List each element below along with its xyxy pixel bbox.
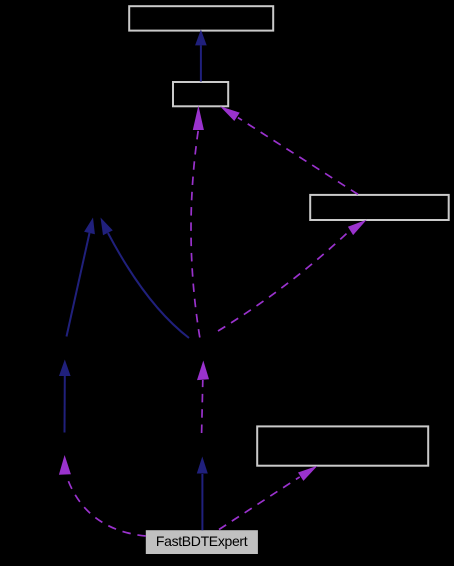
usage edge P1: middle invisible node up to second box (dashed purple)	[191, 106, 204, 338]
node: right-side class box	[310, 195, 449, 220]
usage edge P4: lower-middle invisible node up to middle invisible node (dashed purple)	[197, 361, 209, 434]
node: second-level class box	[173, 82, 228, 106]
usage edge Pcurve: FastBDTExpert left, curved, up to lower-left invisible node (dashed purple)	[59, 455, 146, 536]
node: top base-class box	[129, 6, 273, 30]
inheritance edge B3: lower-left invisible node up to left invisible node	[59, 360, 71, 433]
usage edge P3: FastBDTExpert up-right to lower-right box (dashed purple)	[219, 466, 318, 530]
inheritance edge B6: left invisible node to upper invisible node	[67, 218, 95, 337]
usage edge Pdiag: middle invisible node up-right to right box (dashed purple)	[218, 220, 367, 331]
inheritance edge B1: second box to top box (solid navy)	[195, 30, 207, 82]
usage edge P2: right box up-left to second box (dashed purple)	[220, 106, 358, 194]
svg-text:FastBDTExpert: FastBDTExpert	[156, 533, 248, 549]
inheritance edge B4: middle invisible node, curved, to upper invisible node	[101, 218, 190, 339]
node: lower-right class box (two-line)	[257, 426, 428, 465]
inheritance edge B5: FastBDTExpert up to lower-middle invisible node	[197, 457, 208, 531]
node: FastBDTExpert (current class, grey filled)	[146, 530, 258, 554]
